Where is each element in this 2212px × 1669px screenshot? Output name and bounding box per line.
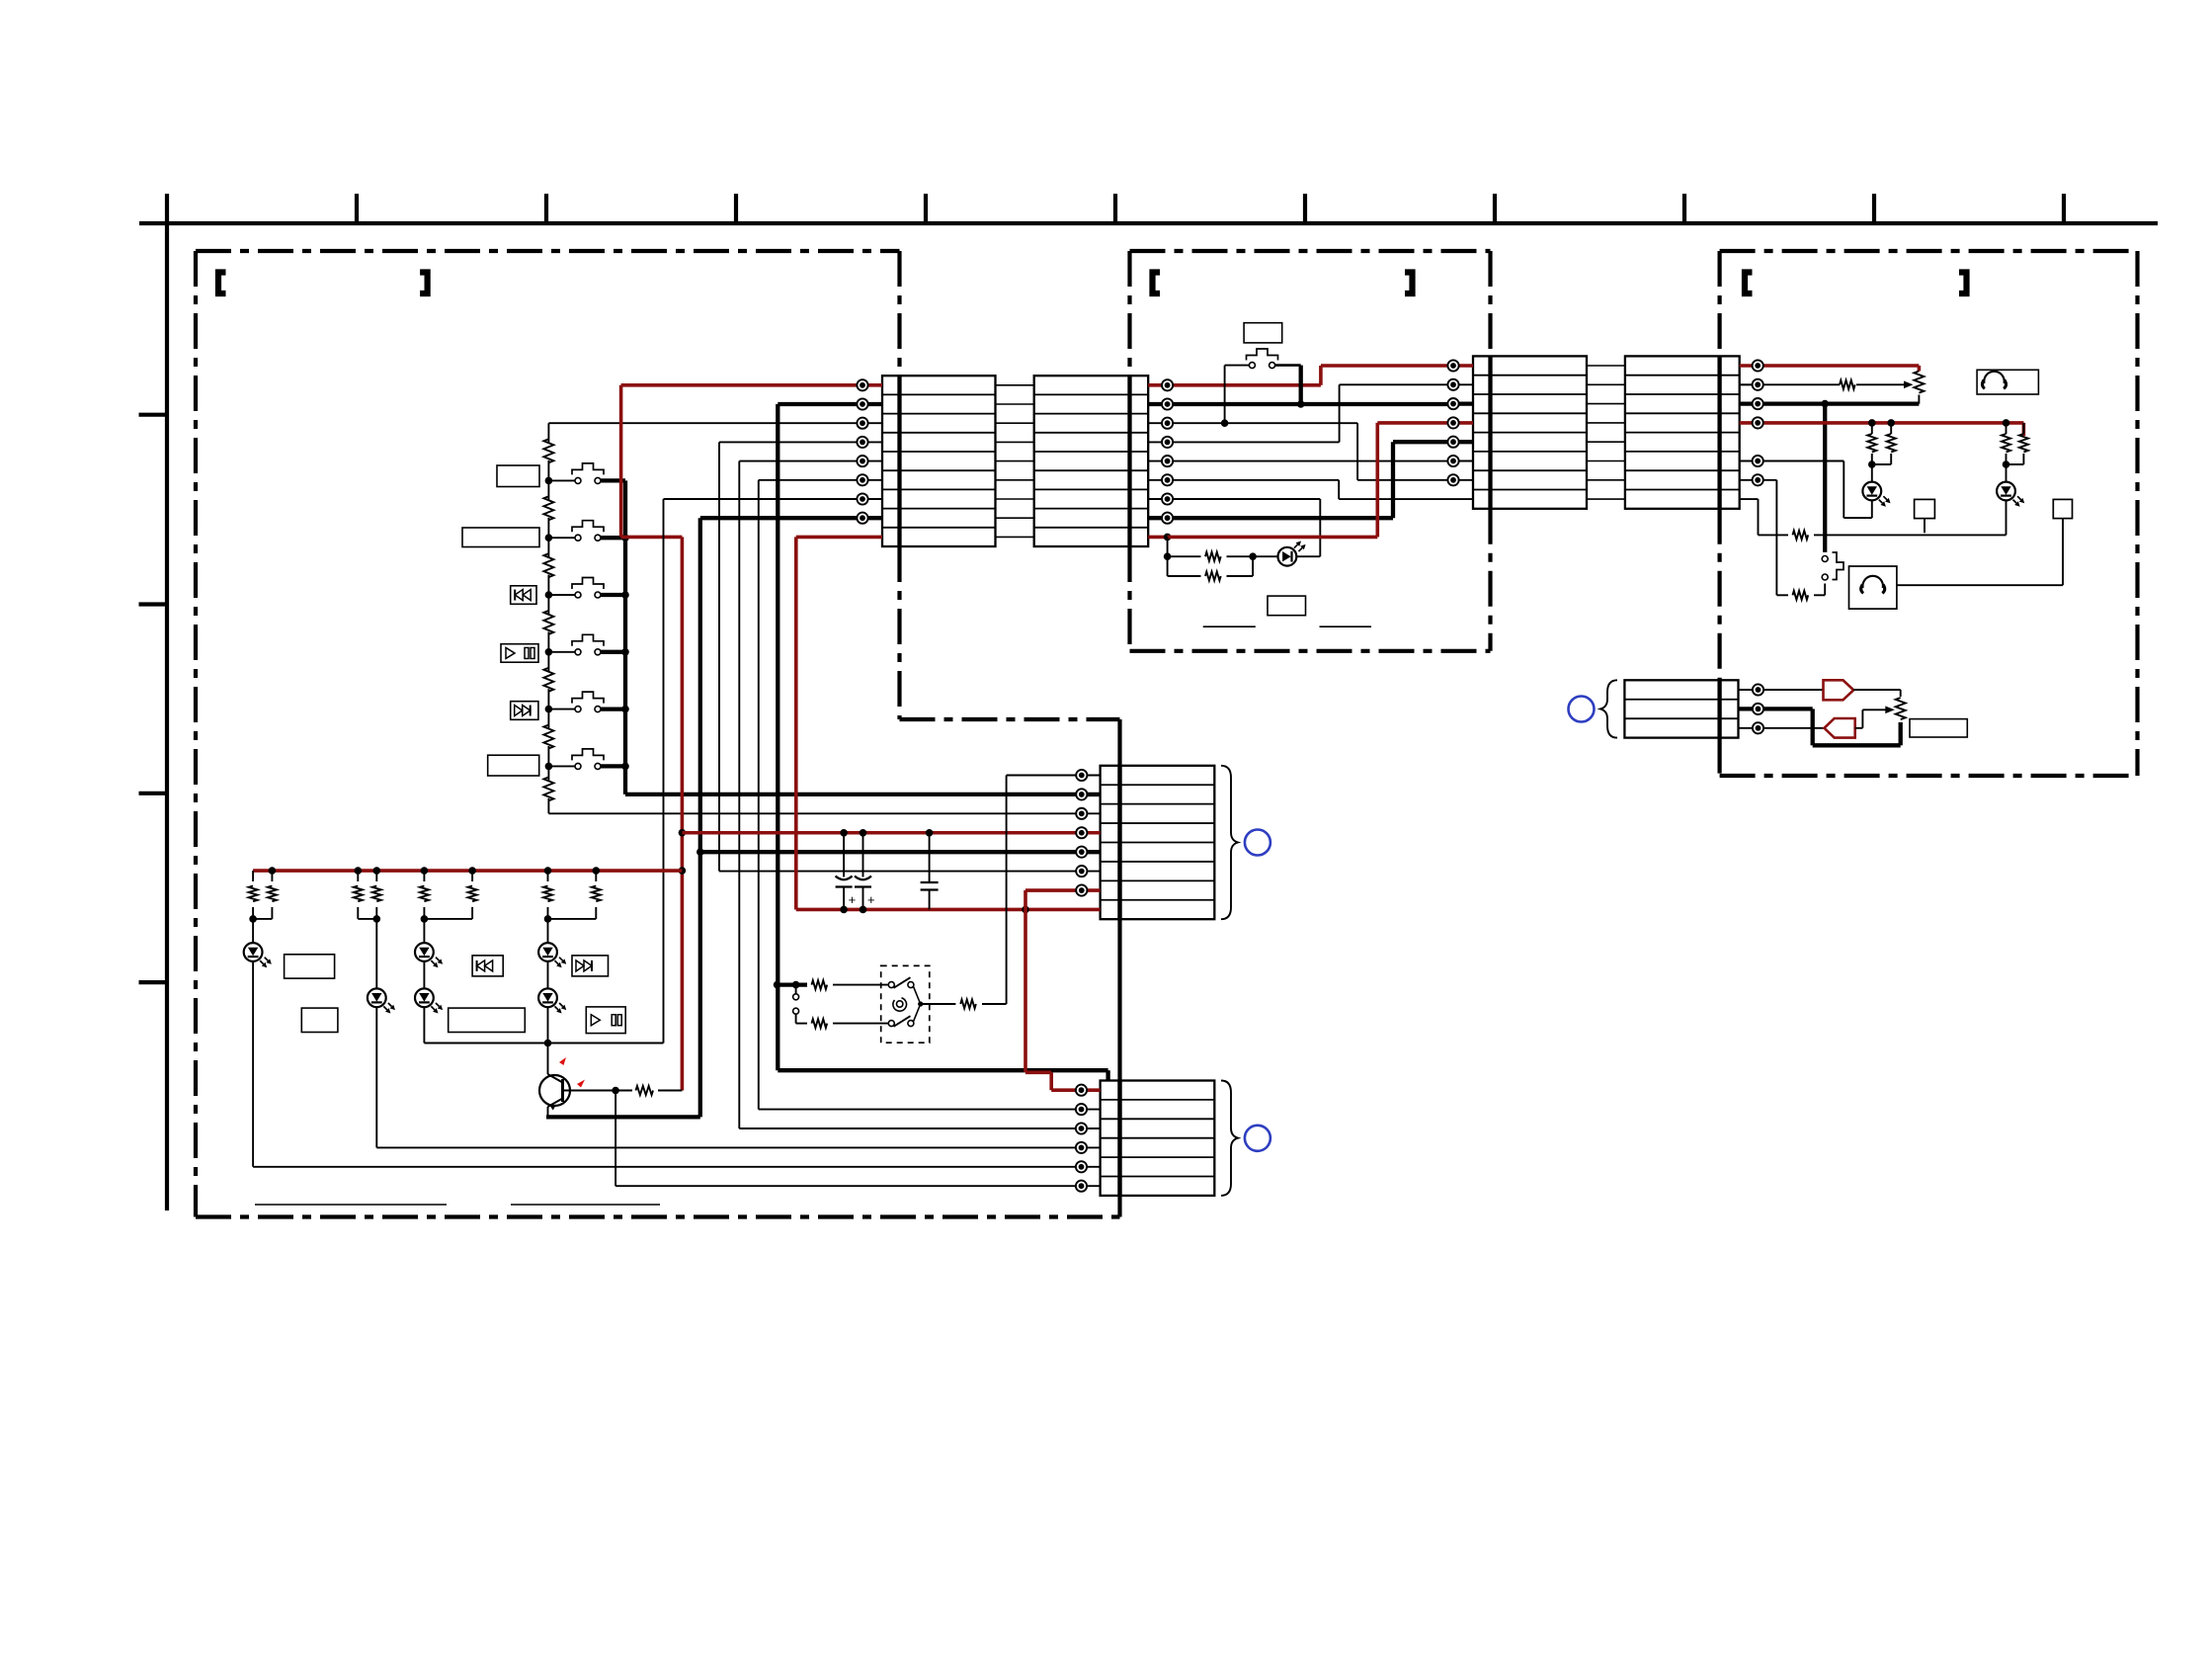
capacitor C2 (polarized) [862,833,864,877]
CN F pin stubs [1082,1090,1101,1186]
LED supply rail (red) [253,867,682,875]
LED D7 lower resistor [1168,556,1254,580]
wire: LED D7 to CN B pin7 jog [1296,555,1320,557]
red power bus vertical [679,537,687,1090]
wire: CN A pin4 to CN E pin6 [719,442,1082,871]
+B rail to CN E pin4 (red) [682,829,1081,837]
label key1 [497,465,539,487]
wire: CN B pin5 to CN C pin6 [1168,460,1453,462]
section box 2 bracket labels [1153,273,1413,294]
section box 1 bracket labels [218,273,428,294]
capacitor C1 (polarized) [843,833,845,877]
label key6 [488,755,539,776]
S7 feed resistor R (upper) [774,980,889,989]
capacitor C3 [921,833,939,910]
switch S9 (hold, tact side-on) [1822,552,1843,580]
CN A pin stubs [862,385,882,538]
wire: CN A pin8 (thick) emitter rail [696,518,1082,1117]
headphone label box (upper) [1977,370,2038,394]
label box (power switch) [1244,323,1282,343]
LED D2 [368,919,395,1014]
blank text rule (left) [255,1204,447,1206]
wire: LED D1 cathode to CN F pin5 [253,961,1081,1167]
CN A pins [857,379,867,524]
wire: LED D6 cathode to return bus [547,1007,549,1043]
Q1 base resistor R to +B [563,1086,683,1095]
CN B pin stubs [1148,385,1167,538]
section box 3 bracket labels [1745,273,1967,294]
CN D pin stubs [1740,366,1759,480]
LED D8 [1862,482,1881,501]
wire: CN A pin1 +B (red) to power bus [621,385,862,538]
section box 3 (phones board) dash-dot outline [1720,251,2138,776]
border frame left rule [165,194,169,1210]
label box (col1 upper) [285,955,335,978]
connector CN E (upper ribbon, to main board) [1101,766,1215,919]
CN C-D mating wires [1587,366,1625,499]
LED column 1 resistors [252,871,254,881]
pad SQ1 [1915,499,1935,533]
S7 rotor mark [893,998,907,1011]
S7 feed resistor R (lower) [796,1019,889,1028]
wire: CN B pin9 +B (red) to CN C pin4 [1164,423,1453,541]
LED column 4 resistors [547,871,549,881]
blank text rules (box2) [1203,626,1256,627]
wire: LED D2 cathode to CN F pin4 [376,1007,1081,1147]
label box (LED D7) [1268,596,1306,616]
LED D8 resistors [1871,423,1873,434]
connector CN C (left half, jack board) [1473,356,1587,508]
brace and ref circle of CN G [1600,680,1617,737]
LED D1 [244,919,272,967]
wire: CN A pin7 to LED return bus [664,499,863,1043]
S7 pole 1 contacts [888,977,914,988]
wire: LED D9 return rail [1758,534,1760,536]
blank text rule (right) [511,1204,660,1206]
connector CN A (left half, key board) [882,376,996,546]
connector CN G (phones board, 3p) [1624,680,1738,737]
wire: chain bottom to CN E pin 3 [548,812,1081,814]
wire: CN D pin1 +B (red) to volume pot [1758,366,1919,372]
switch S4 [545,634,625,655]
wire: jog to CN C pin7 [1357,479,1453,481]
LED D5 [538,919,566,967]
wire: CN A pin9 +B (red) to CN E row8 [796,537,1101,913]
svg-text:+: + [849,892,857,907]
LED D6 [538,961,566,1014]
switch S8 (power, tact) [1247,349,1278,369]
border tick marks left [139,415,168,982]
border tick marks top [357,194,2064,223]
function switch S7 (rotary, dashed box) [881,965,930,1043]
label icon prev (LED board) [472,956,503,976]
red feed to CN E pin7 and CN F pin1 [1025,890,1082,1090]
connector CN B (right half, mates with A) [1034,376,1149,546]
border frame top rule [139,221,2158,225]
wire: mic arrow 1 to pot VR2 top [1853,690,1901,697]
wire: chain top to CN A pin 3 [548,422,862,424]
wire: CN B pin7 to LED D7 return [1168,499,1321,556]
LED D3 [415,919,443,967]
CN E pins [1076,770,1087,896]
wire: CN B pin6 to CN C row8 [1168,480,1473,499]
LED D4 [415,961,443,1014]
wire: CN D pin2 wiper feed [1740,380,1914,389]
CN C pins [1447,360,1458,485]
switch S2 [545,521,625,542]
wire: CN A pin2 (thick) to CN F top [778,404,1107,1081]
switch S1 [545,463,625,484]
switch S3 [545,578,625,599]
wire: CN D pin3 (thick) pot bottom / switch rail [1758,400,1919,552]
CN G pins [1753,684,1763,733]
label box (VR2) [1910,719,1967,737]
label box (col3 wide) [449,1008,526,1032]
S8 left leg to pin3 net [1225,366,1250,424]
key common bus (thick) [621,480,1082,794]
wire: CN A pin6 to CN F pin2 [759,480,1082,1110]
wire: CN D pin4 +B (red) LED rail [1758,419,2023,436]
LED D9 resistors [2006,423,2007,434]
wire: CN D row8 to LED D9 cathode [1740,499,2007,540]
wire: CN D pin7 to reset switch [1758,480,1825,600]
S7 common output to CN E pin1 [914,776,1082,1022]
CN E pin stubs [1082,776,1101,891]
LED return bus [424,1040,663,1047]
mic plug symbol 1 (right) [1824,680,1854,700]
wire: LED D4 cathode to return bus [423,1007,425,1043]
S7 series switch contacts [793,985,799,1024]
label icon play/pause (LED board) [586,1007,625,1034]
section box 1 (key/LED board) dash-dot outline [196,251,1120,1217]
wire: CN A pin5 to CN F pin3 [739,461,1081,1128]
CN A-B mating wires [996,385,1034,538]
pad SQ2 [1897,499,2073,585]
CN F pins [1076,1085,1087,1192]
mic plug symbol 2 (left) [1825,718,1855,738]
wire: CN B pin8 to CN C pin5 (thick) [1168,442,1453,518]
wire: Q1 base node to CN F pin6 [615,1091,1081,1187]
wire: Q1 emitter rail (thick) [546,1107,700,1117]
headphone jack box (lower) [1849,566,1897,609]
label key play/pause [501,644,538,663]
Q1 red check marks [559,1057,566,1065]
CN B pins [1162,379,1173,524]
switch S5 [545,692,625,712]
CN C pin stubs [1453,366,1473,480]
brace and ref circle of CN F [1221,1081,1238,1196]
wire: mic arrow 2 to VR2 wiper [1855,707,1895,728]
wire: Q1 collector to LED return bus [547,1043,549,1075]
wire: CN B pin4 to CN C pin2 [1168,384,1453,442]
section box 2 (jack board) dash-dot outline [1130,251,1491,651]
wire: CN G pin2 (thick) to pot VR2 bottom [1759,709,1901,745]
connector CN D (right half, phones board) [1625,356,1740,508]
wire: CN B pin2 to CN C pin3 (thick) [1168,400,1453,408]
LED D7 circuit [1164,537,1278,576]
label key2 [462,528,539,547]
CN G pin stubs [1739,690,1759,728]
label icon next (LED board) [572,956,609,976]
CN D pins [1753,360,1763,485]
wire: CN G pin3 to mic arrow 2 [1759,727,1825,729]
S7 pole 2 contacts [888,1016,914,1027]
LED D7 [1278,547,1297,566]
wire: CN D pin6 to LED D8 cathode [1758,461,1872,519]
label key prev [511,586,536,605]
switch S6 [545,749,625,770]
LED column 2 resistors [357,871,359,881]
LED D9 [1997,482,2015,501]
volume pot VR1 [1914,372,1924,404]
wire: CN B pin1 to CN C pin1 (red) [1168,366,1453,385]
pot VR2 [1896,698,1906,719]
connector CN F (lower ribbon, to main board) [1101,1081,1215,1196]
wire: CN B pin3 to jog [1168,419,1358,479]
svg-text:+: + [867,892,875,907]
transistor Q1 [539,1074,570,1111]
LED column 3 resistors [423,871,425,881]
brace and ref circle of CN E [1221,766,1238,919]
wire: CN G pin1 to mic arrow 1 [1759,689,1824,691]
S8 right leg to pin2 net (thick) [1275,366,1301,404]
label box (col1 lower) [301,1008,338,1032]
key matrix resistor chain [541,423,553,813]
label key next [511,702,538,720]
